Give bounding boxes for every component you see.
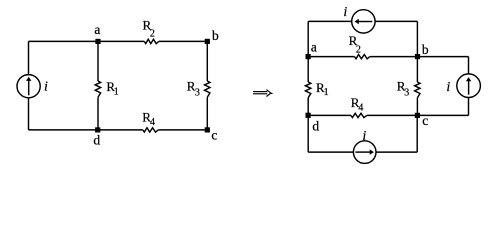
svg-text:i: i xyxy=(362,129,366,144)
wire: right circuit left branch, upper segment xyxy=(307,57,309,82)
node d (left circuit) junction square xyxy=(95,127,100,132)
svg-text:4: 4 xyxy=(150,117,155,128)
node a (right circuit) junction square xyxy=(306,54,311,59)
label R3 (right circuit) xyxy=(397,79,410,99)
wire: right circuit right branch, lower segment xyxy=(416,98,418,116)
node b (right circuit) junction square xyxy=(415,54,420,59)
svg-text:a: a xyxy=(311,39,317,54)
svg-text:b: b xyxy=(212,28,219,43)
resistor R4 (right circuit) zigzag xyxy=(351,113,367,117)
svg-text:i: i xyxy=(343,5,347,20)
wire: right circuit right loop, bottom horizontal xyxy=(417,114,468,116)
svg-text:4: 4 xyxy=(358,102,363,113)
node a (left circuit) junction square xyxy=(95,39,100,44)
wire: right circuit top loop, left vertical xyxy=(307,21,309,56)
wire: right circuit right branch, upper segment xyxy=(416,57,418,82)
wire: right circuit right loop, vertical upper segment xyxy=(468,57,470,74)
svg-text:3: 3 xyxy=(195,88,200,99)
svg-text:i: i xyxy=(446,80,450,95)
resistor R3 (right circuit) zigzag xyxy=(415,82,420,98)
svg-text:a: a xyxy=(94,22,100,37)
svg-text:2: 2 xyxy=(150,28,155,39)
wire: left circuit right wire, upper segment xyxy=(206,41,208,81)
svg-text:1: 1 xyxy=(114,86,119,97)
resistor R1 (left circuit) zigzag xyxy=(95,81,100,97)
label R4 (right circuit) xyxy=(351,95,364,113)
wire: left circuit middle branch, upper segment xyxy=(97,41,99,81)
resistor R2 (left circuit) zigzag xyxy=(144,39,159,43)
resistor R2 (right circuit) zigzag xyxy=(355,55,370,59)
wire: left circuit top wire, right segment xyxy=(159,40,208,42)
wire: right circuit bottom loop, left vertical xyxy=(307,115,309,152)
label R2 (right circuit) xyxy=(349,33,361,55)
wire: right circuit inner bottom wire, left segment xyxy=(308,114,351,116)
svg-text:d: d xyxy=(93,132,100,147)
current source i (right circuit, right) xyxy=(457,74,481,98)
wire: right circuit top loop, top wire right segment xyxy=(375,20,417,22)
wire: right circuit bottom loop, right vertical xyxy=(416,115,418,152)
wire: left circuit middle branch, lower segment xyxy=(97,97,99,130)
svg-text:i: i xyxy=(44,79,48,94)
label R1 (left circuit) xyxy=(106,79,118,98)
wire: left circuit top wire, left segment xyxy=(29,40,145,42)
resistor R1 (right circuit) zigzag xyxy=(305,82,310,98)
label R3 (left circuit) xyxy=(187,78,200,98)
current source i (left circuit) xyxy=(17,75,40,98)
node d (right circuit) junction square xyxy=(306,113,311,118)
svg-text:b: b xyxy=(422,42,429,57)
wire: right circuit bottom loop, horizontal right segment xyxy=(376,151,417,153)
wire: right circuit inner top wire, left segment xyxy=(308,56,354,58)
svg-text:c: c xyxy=(211,127,217,142)
node b (left circuit) junction square xyxy=(205,39,210,44)
wire: right circuit right loop, vertical lower segment xyxy=(468,98,470,116)
node c (left circuit) junction square xyxy=(205,127,210,132)
wire: right circuit right loop, top horizontal xyxy=(417,56,468,58)
wire: left circuit right wire, lower segment xyxy=(206,97,208,130)
wire: right circuit inner bottom wire, right segment xyxy=(367,114,418,116)
svg-text:3: 3 xyxy=(404,87,409,98)
wire: right circuit top loop, top wire left segment xyxy=(308,20,352,22)
resistor R4 (left circuit) zigzag xyxy=(143,128,159,132)
label R1 (right circuit) xyxy=(316,80,329,98)
current source i (right circuit, bottom) xyxy=(353,141,376,164)
label R4 (left circuit) xyxy=(142,109,155,128)
wire: left circuit bottom wire, right segment xyxy=(158,129,207,131)
wire: left circuit left wire, lower segment xyxy=(28,98,30,130)
svg-text:d: d xyxy=(312,119,319,134)
wire: right circuit bottom loop, horizontal left segment xyxy=(308,151,353,153)
wire: left circuit bottom wire, left segment xyxy=(29,129,143,131)
label R2 (left circuit) xyxy=(143,17,155,39)
wire: right circuit left branch, lower segment xyxy=(307,98,309,116)
resistor R3 (left circuit) zigzag xyxy=(205,81,210,97)
current source i (right circuit, top) xyxy=(352,10,375,33)
node c (right circuit) junction square xyxy=(415,113,420,118)
svg-text:1: 1 xyxy=(324,87,329,98)
wire: left circuit left wire, upper segment xyxy=(28,41,30,74)
svg-text:2: 2 xyxy=(356,44,361,55)
wire: right circuit inner top wire, right segment xyxy=(370,56,418,58)
wire: right circuit top loop, right vertical xyxy=(416,21,418,56)
implication arrow between circuits xyxy=(253,90,273,97)
